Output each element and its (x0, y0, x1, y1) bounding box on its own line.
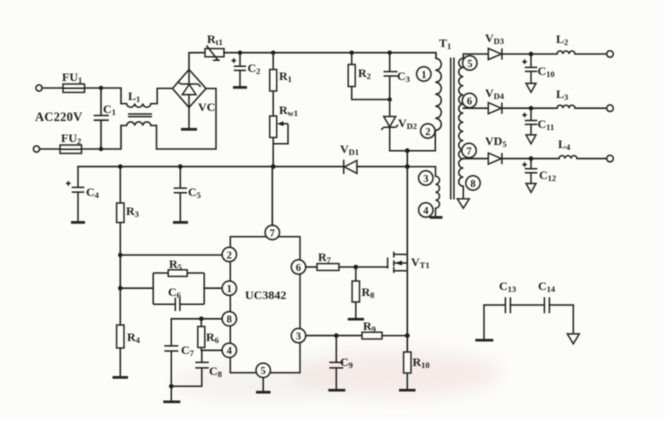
svg-text:5: 5 (467, 59, 472, 70)
node b1 (238, 51, 242, 55)
pin 2 (222, 247, 236, 261)
capacitor C12 (522, 159, 556, 193)
svg-text:6: 6 (467, 96, 472, 107)
wire pin6 gate drive (306, 266, 317, 268)
ground (aux winding pin4) (430, 216, 443, 219)
node g1 (199, 317, 204, 322)
transformer T1 primary winding (407, 36, 451, 151)
resistor R4 (113, 288, 141, 377)
capacitor C7 (163, 319, 194, 402)
wire (85, 88, 122, 104)
svg-text:AC220V: AC220V (35, 110, 82, 124)
pin 3 (291, 328, 305, 342)
node j2 (529, 106, 534, 111)
pin 7 (265, 225, 279, 239)
op-amp U1 UC3842 body (230, 237, 300, 373)
svg-text:UC3842: UC3842 (245, 288, 286, 302)
terminal output 3 (607, 155, 614, 162)
wire (120, 255, 222, 288)
resistor R8 (348, 267, 375, 319)
inductor L1 common-mode choke (121, 88, 216, 149)
svg-text:8: 8 (470, 179, 475, 190)
terminal output 2 (607, 105, 614, 112)
watermark blob (170, 350, 500, 402)
inductor L2 (556, 32, 575, 54)
pin 1 (primary top) (417, 67, 431, 81)
transistor Q1 VT1 MOSFET (388, 252, 430, 273)
wire pin8 net (171, 318, 222, 320)
wire (339, 266, 388, 268)
capacitor C4 (66, 167, 100, 223)
ground (pin 5) (262, 378, 264, 392)
pin 3 (aux top) (419, 171, 433, 185)
pin 4 (222, 343, 236, 357)
terminal output 1 (607, 51, 614, 58)
diode VD3 (485, 31, 504, 60)
svg-text:8: 8 (227, 315, 232, 326)
capacitor C2 (232, 53, 261, 88)
inductor L4 (558, 137, 577, 159)
capacitor C13 (484, 279, 544, 313)
capacitor C3 (384, 53, 410, 100)
pin 4 (aux bottom) (419, 203, 433, 217)
wire drain line (406, 151, 408, 352)
fuse FU1 (63, 84, 85, 92)
node e1 (118, 164, 123, 169)
node c1 (388, 97, 392, 101)
diode VD5 (485, 134, 507, 164)
capacitor C14 (538, 279, 573, 313)
wire output row3 (463, 158, 606, 160)
transformer core (451, 58, 454, 200)
resistor R2 (348, 53, 390, 100)
svg-text:2: 2 (425, 127, 430, 138)
pin 8 (222, 312, 236, 326)
node a1 (99, 86, 103, 90)
pin 5 (463, 56, 477, 70)
capacitor C9 (328, 336, 353, 391)
svg-text:3: 3 (423, 174, 428, 185)
potentiometer Rw1 (270, 103, 298, 167)
ground (secondary pin8 chassis) (457, 199, 469, 209)
wire bridge output to Rt1 (189, 53, 205, 70)
wire output row1 (463, 53, 606, 55)
resistor R6 (198, 319, 219, 351)
node a2 (99, 147, 103, 151)
svg-text:6: 6 (296, 263, 301, 274)
resistor R1 (270, 53, 292, 116)
terminal input N (AC neutral) (33, 146, 39, 152)
pin 1 (222, 281, 236, 295)
capacitor C11 (522, 108, 554, 144)
capacitor C8 (171, 350, 222, 386)
wire (40, 148, 60, 150)
node b4 (388, 51, 392, 55)
pin 2 (primary bottom) (421, 124, 435, 138)
diode VD1 (340, 142, 359, 174)
node g2 (169, 384, 174, 389)
node f1 (118, 253, 123, 258)
node b2 (271, 51, 275, 55)
pin 8 (466, 176, 480, 190)
node i2 (405, 333, 410, 338)
node j3 (529, 156, 534, 161)
node b3 (350, 51, 354, 55)
wire (42, 87, 63, 89)
wire +310V rail (224, 53, 436, 59)
wire pin2 feedback (120, 254, 222, 256)
svg-text:7: 7 (466, 146, 471, 157)
resistor R3 (117, 167, 139, 255)
zener diode VD2 (381, 100, 417, 151)
fuse FU2 (60, 145, 82, 153)
node e3 (271, 164, 276, 169)
node h1 (354, 265, 359, 270)
node f2 (118, 286, 123, 291)
node e4 (405, 164, 410, 169)
wire VCC rail (78, 166, 407, 168)
resistor R5 (153, 257, 204, 304)
wire pin3 current sense (306, 335, 362, 337)
node j1 (529, 52, 534, 57)
capacitor C6 (153, 285, 204, 311)
capacitor C10 (522, 54, 554, 92)
pin 7 (462, 143, 476, 157)
capacitor C1 (95, 88, 116, 149)
svg-text:3: 3 (296, 331, 301, 342)
svg-text:4: 4 (423, 206, 429, 217)
resistor R9 (362, 319, 407, 339)
node i1 (334, 333, 339, 338)
inductor L3 (556, 87, 575, 108)
wire output row2 (463, 107, 606, 109)
svg-text:2: 2 (227, 250, 232, 261)
diode VD4 (485, 86, 505, 114)
svg-text:5: 5 (261, 366, 266, 377)
terminal input L (AC live) (36, 85, 42, 91)
resistor R10 (399, 352, 430, 390)
svg-text:VC: VC (198, 100, 215, 114)
capacitor C5 (173, 167, 201, 223)
node d1 (drain / primary bottom) (405, 148, 410, 153)
svg-text:7: 7 (270, 228, 275, 239)
wire (82, 126, 122, 150)
ground (C13 left bar) (483, 305, 485, 339)
ground (bridge negative bar) (188, 108, 190, 129)
ground (C14 right chassis) (572, 305, 574, 333)
svg-text:1: 1 (227, 284, 232, 295)
thermistor Rt1 (205, 32, 224, 60)
pin 5 (256, 363, 270, 377)
bridge rectifier VC (173, 70, 216, 115)
transformer T1 auxiliary winding (407, 167, 439, 217)
svg-text:4: 4 (227, 346, 233, 357)
resistor R7 (317, 250, 339, 270)
pin 6 (462, 93, 476, 107)
transformer T1 secondary winding (459, 54, 464, 198)
svg-text:1: 1 (421, 70, 426, 81)
node e2 (178, 164, 183, 169)
pin 6 (291, 260, 305, 274)
wire pin4 net (201, 349, 222, 351)
wire pin7 VCC (271, 167, 273, 226)
